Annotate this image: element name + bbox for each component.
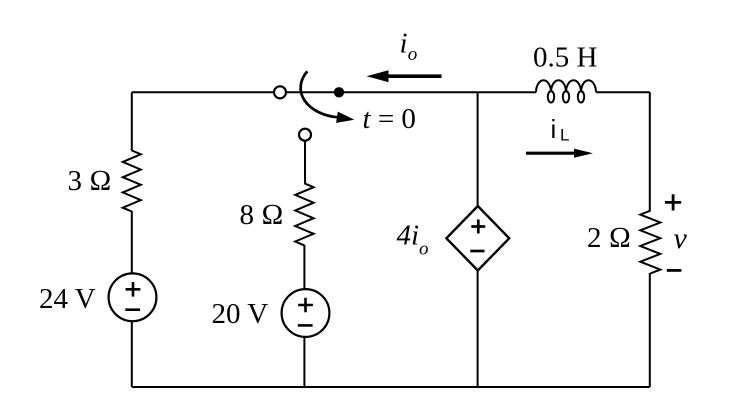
wire: right branch below resistor (649, 273, 651, 387)
switch motion arc (301, 71, 338, 117)
wire: middle branch below resistor (303, 245, 305, 387)
V1 minus sign (125, 308, 140, 311)
polarity minus for v (667, 269, 682, 272)
svg-text:24 V: 24 V (39, 283, 96, 315)
svg-text:o: o (419, 239, 429, 260)
wire: top bus right of inductor (596, 91, 650, 93)
svg-text:3 Ω: 3 Ω (68, 165, 112, 197)
wire: bottom horizontal bus (132, 386, 650, 388)
switch arc arrowhead (336, 112, 354, 123)
svg-text:v: v (674, 222, 688, 255)
V2 minus sign (298, 324, 313, 327)
svg-text:i: i (551, 114, 557, 144)
middle branch open terminal (open circle) (299, 129, 311, 141)
inductor L 0.5H bumps (536, 80, 596, 92)
wire: left branch vertical (131, 92, 133, 151)
svg-text:t = 0: t = 0 (363, 103, 416, 135)
wire: dependent-source branch vertical (477, 92, 479, 387)
current arrow i_L (pointing right) (526, 152, 576, 155)
polarity plus for v (665, 194, 681, 210)
dependent source U1 diamond (446, 206, 509, 271)
wire: left branch below resistor (131, 211, 133, 387)
svg-text:8 Ω: 8 Ω (240, 199, 284, 231)
svg-text:i: i (400, 28, 408, 60)
resistor R 8ohm (middle branch) (295, 183, 313, 245)
U1 plus sign (471, 220, 485, 234)
voltage source V1 24V circle (109, 273, 157, 321)
inductor L loops below (548, 91, 554, 102)
wire: middle branch vertical (below open terminal) (304, 141, 306, 184)
wire: top horizontal bus from left corner to right corner (132, 91, 536, 93)
resistor R 3ohm (left branch) (123, 151, 141, 212)
svg-text:2 Ω: 2 Ω (587, 222, 631, 254)
svg-text:0.5 H: 0.5 H (533, 42, 598, 74)
switch fixed terminal (open circle on top bus) (274, 86, 286, 98)
svg-text:20 V: 20 V (212, 298, 269, 330)
wire: right branch vertical (649, 92, 651, 211)
switch junction node (filled dot) (334, 87, 344, 97)
svg-text:4i: 4i (397, 220, 420, 252)
svg-text:o: o (408, 44, 418, 65)
V2 plus sign (298, 298, 313, 313)
V1 plus sign (126, 282, 141, 297)
current arrow i_o (pointing left over top bus) (388, 74, 442, 78)
resistor R 2ohm (right branch) (640, 211, 660, 274)
svg-text:L: L (560, 126, 569, 145)
voltage source V2 20V circle (282, 289, 330, 337)
U1 minus sign (470, 250, 484, 253)
